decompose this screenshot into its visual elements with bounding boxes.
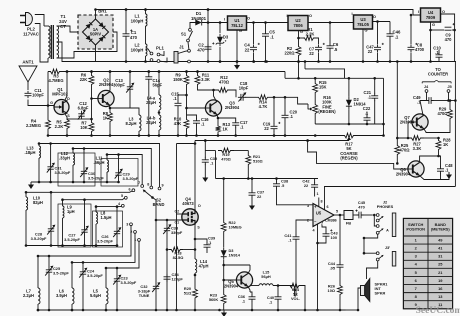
wire S1 to J1 xyxy=(187,42,190,50)
junction xyxy=(72,147,75,150)
resistor R7 10K xyxy=(89,120,94,134)
wire xyxy=(197,72,199,74)
junction xyxy=(158,70,161,73)
svg-text:82µH: 82µH xyxy=(33,200,43,205)
resistor R5 2.2K xyxy=(65,117,70,131)
junction xyxy=(158,70,161,73)
junction xyxy=(329,60,332,63)
svg-text:4.7MEG: 4.7MEG xyxy=(48,78,63,83)
junction xyxy=(297,77,300,80)
svg-text:51Ω: 51Ω xyxy=(184,291,191,296)
svg-text:3.3K: 3.3K xyxy=(413,146,422,151)
diode D1 xyxy=(192,22,204,24)
wire U1 ground pin down xyxy=(236,30,238,62)
junction xyxy=(61,244,64,247)
svg-text:9: 9 xyxy=(161,184,163,188)
wire L5 bottom xyxy=(105,304,107,310)
junction xyxy=(252,60,255,63)
jack J3 hook xyxy=(379,256,383,259)
wire xyxy=(91,72,93,74)
wire R17 wiper to detector drain xyxy=(195,140,349,142)
wire C46 down xyxy=(389,39,391,62)
junction xyxy=(273,134,276,137)
wire C47 down xyxy=(377,53,379,62)
svg-text:2.2K: 2.2K xyxy=(55,124,64,129)
junction xyxy=(144,8,147,11)
junction xyxy=(155,309,158,312)
wire L7 top xyxy=(37,256,39,288)
wire to C4 xyxy=(253,23,255,45)
junction xyxy=(376,60,379,63)
junction xyxy=(453,29,456,32)
wire C22 stub xyxy=(366,112,368,116)
jack J2 contact 1 xyxy=(376,214,379,217)
junction xyxy=(373,77,376,80)
wire C40 down xyxy=(277,302,279,311)
junction xyxy=(38,181,41,184)
wire plug to T1 primary bottom xyxy=(35,24,48,63)
transistor Q6 2N3904 xyxy=(408,161,424,177)
wire L5 top xyxy=(105,268,107,288)
junction xyxy=(389,60,392,63)
capacitor C18 arrow xyxy=(238,93,245,101)
wire regen bottom rail xyxy=(315,123,383,125)
junction xyxy=(106,153,109,156)
wire C26 bottom xyxy=(116,236,118,245)
svg-text:1: 1 xyxy=(316,192,318,196)
junction xyxy=(117,153,120,156)
wire L9 bottom xyxy=(62,218,64,246)
svg-text:220Ω: 220Ω xyxy=(284,51,295,56)
wire BR1 plus output up xyxy=(95,10,97,20)
junction xyxy=(155,219,158,222)
wire T1 secondary top to BR1 AC1 xyxy=(57,26,83,32)
svg-text:100µH: 100µH xyxy=(131,47,144,52)
svg-text:22: 22 xyxy=(368,49,373,54)
junction xyxy=(37,255,40,258)
wire xyxy=(223,236,225,247)
svg-text:470: 470 xyxy=(358,205,365,210)
trimmer capacitor C31 xyxy=(47,164,53,172)
wire wiper common down xyxy=(155,200,157,284)
svg-text:S1: S1 xyxy=(181,32,187,37)
resistor R3 4.7MEG xyxy=(48,69,62,74)
svg-text:3.5-20pF: 3.5-20pF xyxy=(97,239,113,244)
junction xyxy=(194,238,197,241)
svg-text:10K: 10K xyxy=(80,125,88,130)
wire C21 down xyxy=(374,101,376,125)
capacitor C15 xyxy=(175,100,182,108)
svg-text:O: O xyxy=(442,9,445,14)
wire C23 bottom xyxy=(116,284,118,310)
svg-text:3.9µH: 3.9µH xyxy=(56,293,67,298)
wire regen to Q6 base xyxy=(308,141,409,170)
wire C10 down xyxy=(438,59,440,62)
connector PL1 mate contact 2 xyxy=(157,60,160,63)
wire L15 to volume pot xyxy=(273,285,294,287)
trimmer capacitor C24 xyxy=(80,269,86,277)
wire U2 ground pin xyxy=(298,31,300,45)
shield box around L12 C30 xyxy=(58,153,95,186)
shield box around L9 C27 xyxy=(58,204,91,247)
svg-text:15K: 15K xyxy=(319,85,327,90)
capacitor C13 xyxy=(127,84,133,92)
transformer T1 secondary coil xyxy=(57,26,59,58)
diode D2 xyxy=(348,97,350,109)
svg-text:VOL.: VOL. xyxy=(291,296,300,301)
svg-text:G: G xyxy=(364,28,367,33)
wire C25 bottom xyxy=(48,275,50,310)
svg-text:G: G xyxy=(50,101,53,105)
junction xyxy=(207,8,210,11)
wire U1 output rail xyxy=(247,22,289,24)
resistor R25 470ohm xyxy=(395,142,400,158)
ground below U1 xyxy=(236,63,238,66)
capacitor C39b xyxy=(249,294,256,302)
junction xyxy=(219,21,222,24)
resistor R29 470ohm xyxy=(448,106,453,122)
capacitor C43 xyxy=(323,231,330,239)
svg-text:4.7K: 4.7K xyxy=(259,104,268,109)
resistor R23 560K xyxy=(221,292,226,306)
svg-text:2N3904: 2N3904 xyxy=(99,82,114,87)
wire Q7 emitter to R29 xyxy=(423,122,450,133)
wire L8 bottom xyxy=(95,224,97,246)
wire C30 bottom xyxy=(83,176,85,182)
junction xyxy=(376,20,379,23)
wire Q1 source xyxy=(65,114,67,117)
jack J5 contact xyxy=(447,90,450,93)
junction xyxy=(37,309,40,312)
junction xyxy=(83,244,86,247)
wire R11 to R12 xyxy=(198,87,217,90)
junction xyxy=(37,309,40,312)
inductor L5 xyxy=(106,288,108,304)
svg-text:1N4001: 1N4001 xyxy=(191,16,207,21)
junction xyxy=(297,60,300,63)
wire source to C12 xyxy=(67,118,82,120)
inductor L8 xyxy=(96,212,98,224)
wire J4 to Q7 collector xyxy=(420,92,427,100)
svg-text:117VAC: 117VAC xyxy=(23,31,39,36)
svg-text:120pF: 120pF xyxy=(172,277,184,282)
wire C6 down xyxy=(329,51,331,62)
inductor L14 xyxy=(195,259,197,273)
capacitor C34 xyxy=(164,274,171,282)
svg-text:3.5-20pF: 3.5-20pF xyxy=(88,176,104,181)
junction xyxy=(429,29,432,32)
wire C44 to R26 xyxy=(339,270,341,283)
svg-text:150K: 150K xyxy=(173,77,183,82)
wire R2 to rail xyxy=(298,58,300,62)
junction xyxy=(284,134,287,137)
svg-text:2N3904: 2N3904 xyxy=(396,172,411,177)
junction xyxy=(83,198,86,201)
wire C12 to R7 node xyxy=(82,118,92,120)
capacitor C14 xyxy=(145,74,152,82)
wire xyxy=(276,189,278,193)
wire row3 cell2 to contact 2 xyxy=(72,233,135,262)
junction xyxy=(50,191,53,194)
svg-text:6: 6 xyxy=(326,205,328,209)
svg-text:470: 470 xyxy=(197,47,205,52)
wire Q1 drain to supply xyxy=(65,72,67,101)
connector PL1 contact 1 xyxy=(150,52,153,55)
wire J3 to speaker xyxy=(367,261,378,279)
inductor L7 xyxy=(38,288,40,304)
junction xyxy=(449,99,452,102)
capacitor C12 xyxy=(78,111,84,119)
trimmer capacitor C29 xyxy=(115,170,121,178)
trimmer capacitor C25 xyxy=(46,267,52,275)
junction xyxy=(166,248,169,251)
svg-text:U5: U5 xyxy=(316,211,322,216)
wire to C33 xyxy=(166,220,168,226)
junction xyxy=(297,60,300,63)
junction xyxy=(177,134,180,137)
wire regen right edge xyxy=(383,78,385,135)
transformer T1 primary coil xyxy=(48,26,50,58)
wire xyxy=(276,179,278,182)
wire J2 to J3 xyxy=(364,234,378,253)
junction xyxy=(148,70,151,73)
junction xyxy=(277,309,280,312)
junction xyxy=(219,60,222,63)
junction xyxy=(138,134,141,137)
switch S2 contact 7 xyxy=(141,185,144,188)
wire C43 bottom xyxy=(318,239,327,244)
wire speaker to ground rail xyxy=(358,288,361,310)
phone plug at J3 xyxy=(392,252,396,267)
svg-text:1K: 1K xyxy=(103,116,108,121)
junction xyxy=(222,177,225,180)
wire C41 to U5 pin2 xyxy=(296,220,312,235)
switch S2 contact 4 xyxy=(121,204,124,207)
svg-text:ANT1: ANT1 xyxy=(22,60,34,65)
svg-text:1: 1 xyxy=(134,238,136,242)
junction xyxy=(117,181,120,184)
resistor R15 15K xyxy=(313,81,318,95)
ground row1 xyxy=(30,182,32,185)
resistor R27 3.3K xyxy=(408,136,424,141)
switch S2 contact 6 xyxy=(132,189,135,192)
wire C39 top xyxy=(195,239,207,243)
svg-text:2N3904: 2N3904 xyxy=(400,120,415,125)
wire C19 down xyxy=(273,131,275,136)
junction xyxy=(71,261,74,264)
junction xyxy=(219,60,222,63)
switch S1 contact a xyxy=(189,28,192,31)
wire row2 cell2 to contact 5 xyxy=(63,198,125,200)
junction xyxy=(116,244,119,247)
wire xyxy=(434,100,449,102)
transformer T1 core xyxy=(51,25,53,59)
svg-text:6: 6 xyxy=(128,188,130,192)
wire U4 output to right edge xyxy=(441,14,455,62)
wire R4 to ground rail xyxy=(47,132,49,136)
wire PL1 stub 2 xyxy=(160,58,167,63)
junction xyxy=(407,137,410,140)
wire C9 to right edge xyxy=(452,29,455,31)
resistor R11 3.3K xyxy=(195,73,200,87)
wire wiper xyxy=(307,104,309,109)
junction xyxy=(363,237,366,240)
svg-text:1.5µH: 1.5µH xyxy=(101,215,112,220)
capacitor C16 xyxy=(193,118,200,126)
junction xyxy=(38,142,41,145)
junction xyxy=(125,8,128,11)
junction xyxy=(196,70,199,73)
junction xyxy=(61,198,64,201)
speaker SPKR1 xyxy=(361,286,365,296)
junction xyxy=(396,137,399,140)
junction xyxy=(363,252,366,255)
connector PL1 mate contact 1 xyxy=(157,53,160,56)
svg-text:G: G xyxy=(239,28,242,33)
resistor R1 2.2K xyxy=(303,36,315,41)
svg-text:2.2K: 2.2K xyxy=(306,32,315,37)
wire C37 top xyxy=(251,179,253,191)
junction xyxy=(410,14,413,17)
svg-text:560K: 560K xyxy=(209,297,218,302)
wire down to bias node xyxy=(204,141,206,151)
wire J2 sleeve xyxy=(374,215,376,226)
wire to Q2 base xyxy=(92,98,100,100)
junction xyxy=(109,134,112,137)
svg-text:7806: 7806 xyxy=(293,23,303,28)
wire C28 bottom xyxy=(50,234,52,246)
wire detector box left edge xyxy=(176,144,178,311)
capacitor C19 xyxy=(271,123,278,131)
bridge rectifier BR1 diamond xyxy=(83,19,109,45)
junction xyxy=(83,181,86,184)
junction xyxy=(82,261,85,264)
wire xyxy=(224,264,250,266)
svg-text:7: 7 xyxy=(138,181,140,185)
junction xyxy=(314,134,317,137)
svg-text:G: G xyxy=(432,22,435,27)
wire R24 end down xyxy=(301,286,305,311)
svg-text:1µH: 1µH xyxy=(67,209,75,214)
junction xyxy=(247,177,250,180)
svg-text:5: 5 xyxy=(121,194,123,198)
jack J2 contact 3 xyxy=(376,225,379,228)
junction xyxy=(144,60,147,63)
wire C29 bottom xyxy=(118,178,120,182)
inductor L6 xyxy=(72,288,74,304)
wire G2 to box edge xyxy=(177,213,182,215)
inductor L13 xyxy=(39,146,41,158)
capacitor C48 xyxy=(437,166,444,174)
wire R8 down xyxy=(109,124,111,136)
wire C16 down xyxy=(196,126,198,136)
junction xyxy=(396,60,399,63)
wire xyxy=(205,150,215,152)
junction xyxy=(251,177,254,180)
wire R26 down xyxy=(339,298,341,310)
switch S2 contact 9 xyxy=(158,187,161,190)
resistor R12 470ohm xyxy=(216,88,230,93)
junction xyxy=(185,134,188,137)
svg-text:510Ω: 510Ω xyxy=(253,159,263,164)
svg-text:470Ω: 470Ω xyxy=(219,80,230,85)
inductor L4-b xyxy=(159,115,161,130)
IC U2 7806 voltage regulator xyxy=(288,16,308,31)
junction xyxy=(105,309,108,312)
capacitor C7 xyxy=(315,44,322,52)
junction xyxy=(348,77,351,80)
wire L10 bottom xyxy=(25,210,27,246)
junction xyxy=(95,205,98,208)
wire R13 down xyxy=(217,134,219,136)
junction xyxy=(194,142,197,145)
wire rail down to D1 node xyxy=(207,10,209,23)
junction xyxy=(306,139,309,142)
svg-text:LM386: LM386 xyxy=(325,219,336,223)
wire xyxy=(363,237,365,239)
wire C32 down xyxy=(155,291,157,310)
switch S2 pivot xyxy=(151,196,154,199)
svg-text:3.5-20pF: 3.5-20pF xyxy=(31,236,47,241)
resistor R21 510ohm xyxy=(246,152,251,168)
wire Q3 collector up xyxy=(214,90,217,102)
wire L6 bottom xyxy=(71,304,73,310)
wire R24 wiper xyxy=(295,295,297,297)
wire J5 to R29 xyxy=(449,92,451,106)
svg-text:BAND: BAND xyxy=(153,202,165,207)
wire to C5 xyxy=(265,23,267,32)
wire C23 top xyxy=(116,268,118,276)
connector PL1 contact 2 xyxy=(150,59,153,62)
trimmer capacitor C26 xyxy=(114,228,120,236)
wire C7 down xyxy=(318,53,320,62)
wire C25 top xyxy=(48,256,50,267)
wire C13 to supply rail xyxy=(129,72,131,85)
wire C28 top xyxy=(50,192,52,226)
junction xyxy=(362,60,365,63)
wire R6 to R7 xyxy=(91,87,93,120)
junction xyxy=(284,96,287,99)
svg-text:G1: G1 xyxy=(174,220,179,224)
wire Q3 emitter xyxy=(217,114,218,124)
wire Q2 collector to supply xyxy=(108,72,111,93)
switch S2 contact 3 xyxy=(130,223,133,226)
jack J1 tip contact xyxy=(188,49,191,52)
junction xyxy=(222,264,225,267)
svg-text:COUNTER: COUNTER xyxy=(428,72,448,77)
wire U5 output xyxy=(334,214,344,216)
wire R23 down xyxy=(223,306,225,310)
svg-text:I: I xyxy=(351,11,352,16)
svg-text:78L05: 78L05 xyxy=(357,22,370,27)
inductor L3 xyxy=(139,115,141,131)
switch S2 contact 8 xyxy=(150,186,153,189)
svg-text:8.2µH: 8.2µH xyxy=(125,121,136,126)
junction xyxy=(447,99,450,102)
junction xyxy=(317,60,320,63)
jack J3 contact 2 xyxy=(376,258,379,261)
potentiometer R17 wiper arrow xyxy=(348,139,350,142)
junction xyxy=(204,139,207,142)
IC U3 78L05 voltage regulator xyxy=(354,15,373,29)
wire xyxy=(250,292,252,295)
wire Q5 collector up xyxy=(248,265,250,274)
svg-text:47K: 47K xyxy=(174,121,182,126)
svg-text:A: A xyxy=(386,229,389,233)
wire R28 to Q6 collector xyxy=(420,152,439,162)
junction xyxy=(185,107,188,110)
capacitor C18 xyxy=(238,94,246,101)
